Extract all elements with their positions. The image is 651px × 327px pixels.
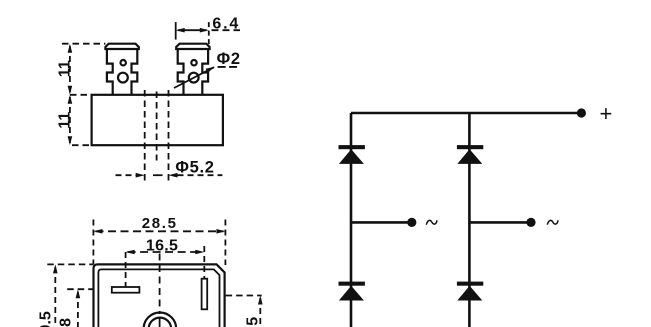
svg-text:5: 5 [245, 317, 262, 326]
dimension 10.5 (left, cut off) [38, 264, 94, 327]
dimension 11 upper [56, 44, 105, 95]
diode D2 (top right) [457, 145, 483, 164]
wire: AC1 stub [351, 221, 412, 224]
hidden hole lines (side view) [145, 90, 169, 184]
dimension 8 (left, cut off) [58, 289, 94, 327]
center screw hole [144, 313, 177, 327]
terminal T1 [105, 44, 138, 95]
wire: left branch [350, 113, 353, 327]
wire: + rail [351, 112, 581, 115]
vertical slot [202, 279, 208, 310]
node AC1 dot [407, 218, 416, 227]
node + dot [577, 108, 586, 117]
dimension 28.5 [93, 215, 225, 265]
node AC2 dot [526, 218, 535, 227]
svg-text:8: 8 [58, 318, 75, 327]
diode D1 (top left) [339, 145, 365, 164]
dimension 5 (right, cut off) [226, 296, 263, 327]
dimension 6.4 [176, 15, 240, 44]
svg-text:+: + [600, 101, 613, 126]
top view inner outline [98, 269, 219, 327]
horizontal slot [112, 287, 140, 293]
label + [600, 101, 613, 126]
dimension Phi5.2 [116, 159, 223, 178]
svg-text:11: 11 [56, 112, 73, 129]
dimension Phi2 with leader [174, 50, 241, 88]
diode D4 (bottom right) [457, 282, 483, 301]
label ~ AC2 [547, 220, 558, 224]
top view outer outline [94, 264, 225, 327]
dimension 16.5 [126, 237, 205, 286]
svg-text:10.5: 10.5 [38, 311, 55, 327]
svg-text:6.4: 6.4 [212, 15, 240, 32]
svg-text:11: 11 [56, 60, 73, 77]
label ~ AC1 [426, 220, 437, 224]
wire: right branch [468, 113, 471, 327]
svg-text:28.5: 28.5 [142, 215, 178, 232]
dimension 11 lower [56, 95, 91, 145]
svg-text:Φ5.2: Φ5.2 [175, 159, 214, 177]
center line [159, 254, 161, 315]
diode D3 (bottom left) [339, 282, 365, 301]
body side view [92, 95, 223, 145]
wire: AC2 stub [469, 221, 531, 224]
svg-text:Φ2: Φ2 [217, 50, 241, 68]
svg-text:16.5: 16.5 [146, 237, 178, 254]
terminal T2 [176, 44, 209, 95]
